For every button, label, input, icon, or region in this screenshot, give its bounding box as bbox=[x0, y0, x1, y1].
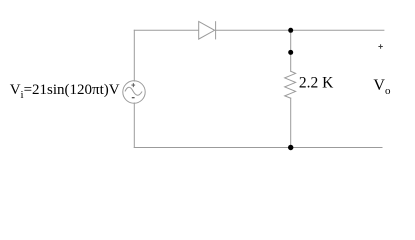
svg-text:2.2 K: 2.2 K bbox=[299, 74, 334, 91]
wire left vertical upper (top wire to source top) bbox=[133, 30, 135, 81]
diode D1 cathode bar bbox=[215, 22, 217, 39]
wire left vertical lower (source bottom to bottom wire) bbox=[133, 103, 135, 148]
svg-text:Vi=21sin(120πt)V: Vi=21sin(120πt)V bbox=[10, 82, 120, 101]
wire resistor branch lower (resistor bottom to bottom wire) bbox=[290, 98, 292, 147]
node junction dot at resistor bottom / bottom wire bbox=[288, 145, 293, 150]
node junction dot on resistor branch bbox=[288, 50, 293, 55]
wire resistor branch upper (node to resistor top) bbox=[290, 30, 292, 71]
voltage source V1 minus polarity mark bbox=[132, 97, 135, 99]
label + output polarity bbox=[378, 44, 382, 48]
voltage source V1 circle bbox=[123, 81, 145, 103]
diode D1 triangle (anode) bbox=[199, 22, 215, 40]
voltage source V1 plus polarity mark bbox=[131, 83, 135, 87]
wire bottom horizontal bbox=[134, 147, 382, 149]
node junction dot at diode cathode / resistor top bbox=[288, 28, 293, 33]
wire top-right horizontal (diode cathode to output) bbox=[216, 29, 384, 31]
wire top-left horizontal (source corner to diode anode) bbox=[134, 29, 198, 31]
voltage source V1 sine wave bbox=[125, 87, 142, 95]
resistor R1 zigzag 2.2 K bbox=[285, 71, 296, 98]
